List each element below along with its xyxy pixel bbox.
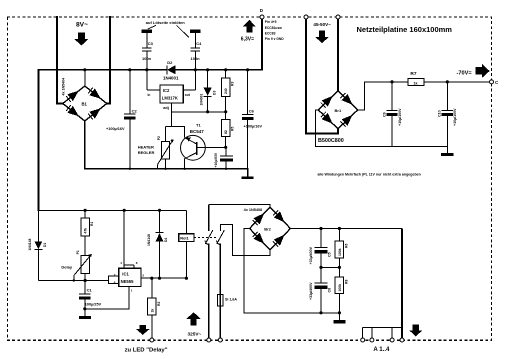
- svg-text:Br1: Br1: [335, 108, 342, 113]
- label R5 value (rotated): [224, 130, 228, 134]
- node D: [260, 15, 264, 19]
- svg-text:C10: C10: [438, 110, 442, 117]
- node A3: [390, 338, 394, 342]
- svg-text:auf Lötseite einlöten: auf Lötseite einlöten: [146, 20, 185, 25]
- resistor R5: [221, 120, 230, 148]
- svg-text:R7: R7: [410, 71, 416, 77]
- label R3 (rotated): [231, 82, 235, 86]
- arrow 325V up: [186, 312, 201, 325]
- ground C10: [441, 153, 453, 156]
- svg-text:R1: R1: [90, 222, 94, 226]
- capacitor C4: [190, 30, 200, 90]
- potentiometer P1 delay: [74, 254, 92, 280]
- svg-text:+33µ/400V: +33µ/400V: [309, 246, 313, 264]
- arrow 8V down: [75, 33, 89, 46]
- resistor R2: [148, 278, 157, 338]
- svg-text:C1: C1: [87, 287, 93, 292]
- fuse Si1: [218, 295, 223, 339]
- arrow -70V right: [475, 64, 489, 78]
- svg-text:82: 82: [224, 130, 228, 134]
- wire AC2 to B2 top: [337, 19, 339, 91]
- label IC2 pin out: [185, 93, 191, 97]
- svg-text:ECC81usw: ECC81usw: [265, 26, 282, 30]
- svg-text:100k: 100k: [338, 248, 342, 256]
- capacitor C5: [315, 229, 328, 268]
- wire mid filter rail: [321, 266, 339, 268]
- wire B1 minus lead to ground bus: [85, 121, 248, 176]
- svg-text:zu LED "Delay": zu LED "Delay": [125, 347, 168, 353]
- label R1 (rotated): [90, 222, 94, 226]
- label R7: [410, 71, 416, 77]
- svg-text:BC547: BC547: [190, 129, 205, 134]
- bridge rectifier B2: [318, 91, 358, 129]
- label C5 (rotated): [327, 252, 331, 257]
- svg-text:R6: R6: [344, 244, 348, 248]
- svg-text:100k: 100k: [338, 284, 342, 292]
- resistor R6: [335, 229, 344, 268]
- svg-text:8V~: 8V~: [76, 21, 88, 28]
- label R6 (rotated): [344, 244, 348, 248]
- label D4 value (rotated): [147, 234, 151, 246]
- node 325V right: [218, 338, 222, 342]
- wire IC2 adj: [166, 103, 226, 141]
- label B1: [82, 102, 88, 107]
- svg-text:T1: T1: [196, 122, 201, 127]
- svg-text:IC1: IC1: [122, 271, 129, 276]
- svg-text:1k: 1k: [150, 309, 154, 313]
- node LED delay: [150, 338, 154, 342]
- svg-text:in: in: [148, 93, 151, 97]
- arrow zu LED down: [136, 325, 149, 335]
- label R8 (rotated): [344, 280, 348, 284]
- wire anode taps: [363, 327, 402, 338]
- svg-text:325V~: 325V~: [188, 332, 202, 337]
- svg-text:D4: D4: [164, 238, 168, 242]
- svg-text:NE555: NE555: [121, 279, 134, 284]
- svg-text:100n: 100n: [142, 56, 152, 61]
- label C10 (rotated): [438, 110, 442, 117]
- svg-text:1k: 1k: [414, 81, 418, 85]
- label R2 (rotated): [157, 302, 161, 306]
- node AC1 top border: [304, 15, 308, 19]
- label 4x 1N5408: [244, 208, 263, 212]
- diode D3: [204, 70, 212, 112]
- wire 8V input left: [57, 17, 63, 104]
- capacitor C9: [386, 82, 397, 147]
- svg-text:Netzteilplatine 160x100mm: Netzteilplatine 160x100mm: [357, 25, 453, 34]
- capacitor C6: [242, 70, 254, 169]
- svg-text:C6: C6: [249, 109, 255, 114]
- diode D2: [167, 65, 176, 74]
- label C7 value (rotated): [214, 152, 218, 167]
- label C9 value (rotated): [398, 108, 402, 126]
- label P1 (rotated): [76, 250, 80, 254]
- node AC2 top border: [336, 15, 340, 19]
- wire top DC bus right segment: [175, 18, 262, 70]
- timer IC1: [85, 210, 187, 308]
- label IC1: [121, 271, 134, 284]
- transistor T1: [181, 135, 226, 168]
- label -70V=: [457, 71, 473, 77]
- wire 8V input right: [107, 17, 110, 104]
- label IC2 pin in: [148, 93, 151, 97]
- svg-text:alle Windungen Mehrfach (PL 11: alle Windungen Mehrfach (PL 11V nur nich…: [318, 172, 421, 176]
- capacitor C2: [124, 70, 136, 169]
- label R7 value: [414, 81, 418, 85]
- resistor R3: [221, 70, 230, 120]
- svg-text:D3: D3: [213, 91, 217, 95]
- svg-text:4x 1N5404: 4x 1N5404: [62, 78, 66, 96]
- label D3 value (rotated): [199, 94, 203, 106]
- label R1 value (rotated): [84, 228, 88, 234]
- label C1: [87, 287, 93, 292]
- svg-text:6,3V=: 6,3V=: [241, 37, 254, 43]
- label C4: [196, 41, 202, 46]
- arrow 45-50V down: [315, 30, 329, 43]
- wire B2 minus rail: [316, 110, 448, 147]
- svg-text:Br2: Br2: [264, 227, 271, 232]
- wire delay bottom rail: [38, 276, 118, 284]
- label C9 (rotated): [382, 112, 386, 117]
- label Br2: [264, 227, 271, 232]
- svg-text:Si 1,6A: Si 1,6A: [225, 297, 237, 301]
- label node C: [495, 80, 499, 85]
- label D3 (rotated): [213, 91, 217, 95]
- note auf Loetseite with pointer lines: [146, 20, 189, 37]
- label P2 (rotated): [157, 136, 161, 140]
- svg-text:LM317K: LM317K: [162, 96, 178, 101]
- svg-text:D2: D2: [167, 60, 173, 65]
- label 45-50V~: [313, 22, 331, 27]
- label D1 (rotated): [43, 243, 47, 247]
- label IC2 pin adj: [163, 106, 169, 110]
- svg-text:+100µ/16V: +100µ/16V: [244, 124, 263, 128]
- bridge rectifier Br3: [250, 207, 291, 250]
- note alle Windungen: [318, 172, 421, 176]
- svg-text:Delay: Delay: [61, 265, 72, 270]
- node 325V left: [207, 338, 211, 342]
- node A2: [370, 338, 374, 342]
- svg-text:IC2: IC2: [163, 88, 170, 93]
- label A 1..4: [373, 346, 390, 353]
- relay coil Rel1: [179, 210, 194, 278]
- svg-text:adj: adj: [163, 106, 169, 110]
- label C4 value: [191, 56, 201, 61]
- label 325V~: [188, 332, 202, 337]
- wire Br3 plus anode rail: [290, 229, 402, 339]
- label zu LED Delay: [125, 347, 168, 353]
- capacitor C1: [79, 281, 91, 317]
- label R5 (rotated): [231, 127, 235, 131]
- svg-text:C9: C9: [382, 112, 386, 117]
- svg-text:HEATER: HEATER: [138, 144, 154, 149]
- svg-text:47k: 47k: [84, 228, 88, 234]
- diode D4: [156, 210, 164, 278]
- capacitor C7: [220, 147, 233, 169]
- label C1 value: [85, 302, 102, 306]
- svg-text:100n: 100n: [191, 56, 201, 61]
- svg-text:R3: R3: [231, 82, 235, 86]
- label C6 value: [244, 124, 263, 128]
- potentiometer P2 heater: [158, 139, 174, 169]
- label C8 (rotated): [327, 288, 331, 293]
- label T1: [190, 122, 205, 133]
- wire Br3 minus to ground rail: [244, 229, 340, 313]
- capacitor C8: [315, 267, 328, 312]
- label Si1: [225, 297, 237, 301]
- ground heater section: [242, 176, 254, 179]
- node A1: [361, 338, 365, 342]
- svg-text:P2: P2: [157, 136, 161, 140]
- wire top DC bus left segment: [38, 70, 166, 211]
- svg-text:B1: B1: [82, 102, 88, 107]
- label C3: [148, 41, 154, 46]
- label heater regler: [138, 144, 155, 155]
- svg-text:+10µ/63V: +10µ/63V: [214, 152, 218, 167]
- resistor R7: [408, 78, 424, 85]
- svg-text:-70V=: -70V=: [457, 71, 473, 77]
- svg-text:1N4001: 1N4001: [163, 75, 179, 80]
- svg-text:1N4001: 1N4001: [199, 94, 203, 106]
- label C2 value: [106, 127, 125, 131]
- svg-text:P1: P1: [76, 250, 80, 254]
- label C2: [132, 109, 138, 114]
- svg-text:+10µ/100V: +10µ/100V: [453, 108, 457, 126]
- svg-text:+10µ/100V: +10µ/100V: [398, 108, 402, 126]
- svg-text:D1: D1: [43, 243, 47, 247]
- svg-text:4x 1N5408: 4x 1N5408: [244, 208, 263, 212]
- label D2: [167, 60, 173, 65]
- ground R8: [333, 320, 345, 323]
- label R8 value (rotated): [338, 284, 342, 292]
- svg-text:45-50V~: 45-50V~: [313, 22, 331, 27]
- label D1 value (rotated): [28, 239, 32, 251]
- label C8 value (rotated): [309, 282, 313, 300]
- svg-text:A 1..4: A 1..4: [373, 346, 390, 353]
- resistor R8: [335, 267, 344, 320]
- svg-text:REGLER: REGLER: [138, 150, 155, 155]
- label D2 value: [163, 75, 179, 80]
- node C: [490, 80, 494, 84]
- label node D: [260, 8, 264, 13]
- label Delay pot: [61, 265, 72, 270]
- capacitor C10: [442, 82, 453, 153]
- label R3 value (rotated): [224, 88, 228, 94]
- label C3 value: [142, 56, 152, 61]
- svg-text:240: 240: [224, 88, 228, 94]
- wire delay supply rail: [38, 209, 186, 211]
- label Rel1: [180, 236, 189, 241]
- label C5 value (rotated): [309, 246, 313, 264]
- arrow anode down: [409, 324, 422, 336]
- label R2 value (rotated): [150, 309, 154, 313]
- arrow 6,3V up: [243, 20, 256, 33]
- svg-text:1N4148: 1N4148: [28, 239, 32, 251]
- wire B1 plus lead: [84, 70, 86, 86]
- relay contact 2: [217, 225, 270, 295]
- relay contact 1: [205, 204, 213, 338]
- resistor R1: [81, 210, 90, 255]
- svg-text:100µ/25V: 100µ/25V: [85, 302, 102, 306]
- bridge rectifier B1: [63, 86, 107, 121]
- capacitor C3: [142, 30, 152, 90]
- svg-text:Pin 4+5: Pin 4+5: [265, 20, 277, 24]
- label B2 type: [318, 138, 344, 144]
- svg-text:R2: R2: [157, 302, 161, 306]
- label Netzteilplatine: [357, 25, 453, 34]
- label B1 type (rotated): [62, 78, 66, 96]
- svg-text:R8: R8: [344, 280, 348, 284]
- svg-text:C3: C3: [148, 41, 154, 46]
- node A4: [400, 338, 404, 342]
- label R6 value (rotated): [338, 248, 342, 256]
- svg-text:Pin 9 v GND: Pin 9 v GND: [265, 37, 284, 41]
- wire AC1 to B2 bottom: [306, 19, 338, 134]
- op-amp regulator IC2: [147, 85, 196, 103]
- ground C1: [79, 316, 91, 319]
- diode D1: [34, 210, 42, 280]
- svg-text:R5: R5: [231, 127, 235, 131]
- label 8V~: [76, 21, 88, 28]
- svg-text:+100µ/16V: +100µ/16V: [106, 127, 125, 131]
- label 6,3V=: [241, 37, 254, 43]
- label IC2: [162, 88, 178, 101]
- svg-text:C2: C2: [132, 109, 138, 114]
- svg-text:B500C800: B500C800: [318, 138, 344, 144]
- svg-text:1N4148: 1N4148: [147, 234, 151, 246]
- label C10 value (rotated): [453, 108, 457, 126]
- svg-text:Rel1: Rel1: [180, 236, 189, 241]
- label IC1 pin numbers: [114, 261, 144, 292]
- label D4 (rotated): [164, 238, 168, 242]
- svg-text:ECC83: ECC83: [265, 31, 276, 35]
- label Br1: [335, 108, 342, 113]
- svg-text:+33µ/400V: +33µ/400V: [309, 282, 313, 300]
- label C6: [249, 109, 255, 114]
- wire switched rail to Br3: [209, 204, 270, 207]
- wire B2 plus rail: [358, 82, 490, 110]
- note pin list: [265, 20, 284, 41]
- svg-text:C8: C8: [327, 288, 331, 293]
- wire relay actuation (dashed): [194, 237, 217, 239]
- svg-text:C4: C4: [196, 41, 202, 46]
- svg-text:C5: C5: [327, 252, 331, 257]
